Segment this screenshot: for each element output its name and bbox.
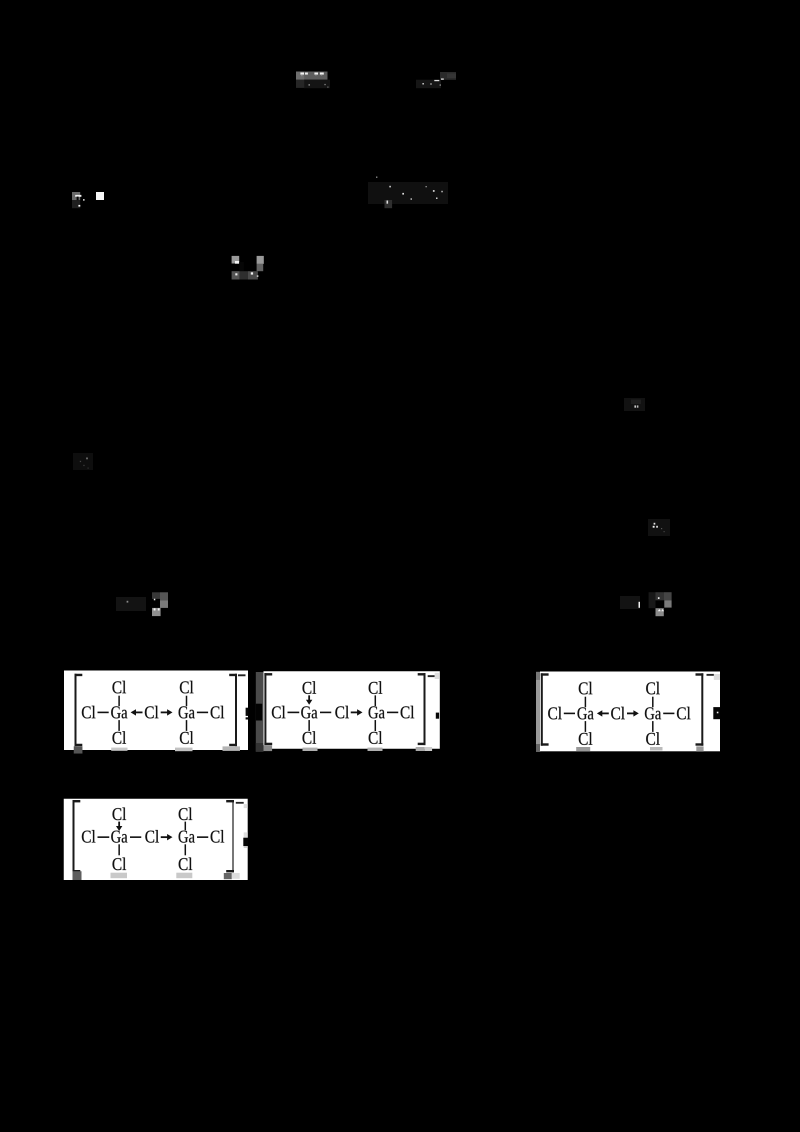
P1 superscript minus charge <box>238 674 246 676</box>
P4 left Ga label <box>111 831 127 843</box>
panel P3 left grey strip <box>536 672 540 752</box>
P3 bond Cl-Ga left <box>564 712 575 714</box>
P3 right Cl label <box>677 707 691 720</box>
P4 bottom-left Cl label <box>113 858 127 871</box>
P1 left bracket <box>75 674 83 746</box>
P2 bond bottom-right Ga-Cl <box>374 720 376 731</box>
P1 bond Ga-Cl right <box>197 711 208 713</box>
P2 right bracket <box>418 673 426 745</box>
P1 arrow bond Cl->Ga left <box>131 709 143 715</box>
P2 bond bottom-left Ga-Cl <box>308 720 310 731</box>
P3 left Ga label <box>577 707 593 719</box>
P1 bottom-left Cl label <box>112 731 126 744</box>
P2 top-left Cl label <box>303 681 317 694</box>
P2 dative arrow top Cl->Ga <box>306 695 312 704</box>
P4 right Ga label <box>179 831 195 843</box>
P3 bottom-left Cl label <box>579 732 593 745</box>
P3 left bracket <box>541 673 549 745</box>
fragment: dark formula sliver with specks <box>416 72 456 88</box>
P3 top-left Cl label <box>579 682 593 695</box>
P3 bond Ga-Cl right <box>663 712 674 714</box>
P4 bond Ga-Cl right <box>197 836 208 838</box>
fragment: faint sliver with dim specks <box>73 453 93 470</box>
P3 right Ga label <box>645 707 661 719</box>
fragment: faint sliver with twin specks <box>624 398 645 411</box>
P2 bond Cl-Ga left <box>288 711 300 713</box>
panel P3 edge artifacts <box>576 674 720 752</box>
P4 dative arrow top Cl->Ga <box>116 822 122 831</box>
P3 bond top-right Cl-Ga <box>652 697 654 707</box>
P2 left Ga label <box>301 706 317 718</box>
P2 arrow bond Cl->Ga <box>351 709 363 715</box>
P4 left bracket <box>73 800 81 872</box>
P1 bond bottom-right Ga-Cl <box>186 720 188 731</box>
fragment: question-number sliver and white box icon <box>72 192 104 208</box>
P2 bottom-right Cl label <box>369 731 383 744</box>
P3 bridging Cl label <box>611 707 625 720</box>
P4 left Cl label <box>82 830 96 843</box>
P1 bond Cl-Ga left <box>98 711 109 713</box>
P1 left Ga label <box>111 706 127 718</box>
P1 right Cl label <box>211 706 225 719</box>
panel P3 strip bottom block <box>536 744 540 752</box>
P4 bottom-right Cl label <box>179 858 193 871</box>
P4 bond top-right Cl-Ga <box>184 822 186 831</box>
P4 top-right Cl label <box>179 808 193 821</box>
P4 arrow bond Cl->Ga <box>161 834 173 840</box>
P2 left Cl label <box>272 706 286 719</box>
fragment: faint reactant sliver with grey blocks (right) <box>620 592 672 616</box>
P2 top-right Cl label <box>369 681 383 694</box>
P1 bond bottom-left Ga-Cl <box>118 720 120 731</box>
P2 bottom-left Cl label <box>303 731 317 744</box>
P3 top-right Cl label <box>646 682 660 695</box>
panel P2 white background <box>264 671 440 749</box>
panel P4 white background <box>64 799 248 880</box>
P3 superscript minus charge <box>707 674 715 676</box>
P3 bond bottom-left Ga-Cl <box>584 721 586 732</box>
P4 right Cl label <box>211 830 225 843</box>
P4 top-left Cl label <box>113 808 127 821</box>
P1 bridging Cl label <box>145 706 159 719</box>
P1 bottom-right Cl label <box>180 731 194 744</box>
fragment: faint equation sliver with specks <box>368 177 448 209</box>
fragment: grey block cluster sliver <box>232 256 264 280</box>
P4 right bracket <box>226 800 234 872</box>
panel P1 white background <box>64 671 248 751</box>
panel P4 edge artifacts <box>73 802 249 880</box>
P3 arrow bond Cl->Ga left <box>597 710 609 716</box>
P1 left Cl label <box>82 706 96 719</box>
P3 bond top-left Cl-Ga <box>584 697 586 707</box>
P4 bond bottom-left Ga-Cl <box>118 844 120 855</box>
panel P2 edge artifacts <box>264 673 440 751</box>
P1 top-left Cl label <box>112 681 126 694</box>
panel P2 left grey strip <box>256 672 264 752</box>
panel P3 white background <box>540 672 720 752</box>
P2 bond Ga-Cl right <box>387 711 398 713</box>
P3 arrow bond Cl->Ga right <box>627 710 639 716</box>
P4 bridging Cl label <box>145 830 159 843</box>
P2 bond Ga-Cl middle <box>320 711 331 713</box>
P4 bond bottom-right Ga-Cl <box>184 844 186 855</box>
panel P1 edge artifacts <box>74 708 248 754</box>
panel P2 strip bottom block <box>256 743 264 752</box>
P3 bottom-right Cl label <box>646 732 660 745</box>
P2 left bracket <box>264 673 272 745</box>
P2 right Cl label <box>401 706 415 719</box>
panel P3 strip top block <box>536 672 540 680</box>
P4 bond Ga-Cl middle <box>130 836 141 838</box>
P1 right Ga label <box>179 706 195 718</box>
P3 right bracket <box>696 673 704 745</box>
P1 bond top-right Cl-Ga <box>186 696 188 706</box>
P3 bond bottom-right Ga-Cl <box>652 721 654 732</box>
P1 top-right Cl label <box>180 681 194 694</box>
P2 right Ga label <box>369 706 385 718</box>
P4 bond Cl-Ga left <box>98 836 110 838</box>
P1 bond top-left Cl-Ga <box>118 696 120 706</box>
fragment: faint sliver with three specks <box>648 519 670 536</box>
fragment: faint reactant sliver with grey blocks (left) <box>116 592 168 616</box>
fragment: NH2 image sliver (top question graphic) <box>296 72 330 89</box>
P3 left Cl label <box>548 707 562 720</box>
P2 bridging Cl label <box>335 706 349 719</box>
panel P2 ink blob on strip <box>256 704 262 721</box>
P2 bond top-right Cl-Ga <box>374 695 376 706</box>
P1 arrow bond Cl->Ga right <box>161 709 173 715</box>
P1 right bracket <box>229 674 237 746</box>
